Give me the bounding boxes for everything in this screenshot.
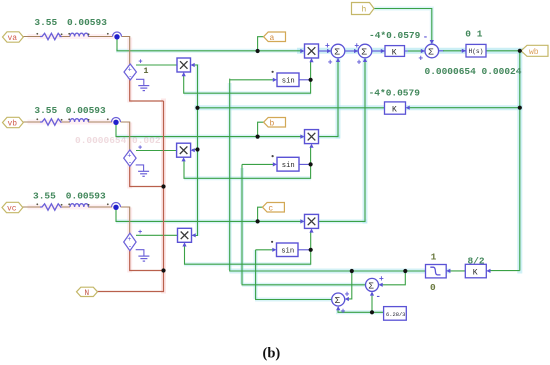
svg-text:+: +	[357, 59, 362, 68]
tag c	[263, 203, 285, 214]
gain K1 -4*0.0579	[381, 46, 405, 58]
svg-text:8/2: 8/2	[468, 255, 485, 266]
wire: theta-b feed to sin-b	[242, 163, 275, 165]
wire: X-b' out to diamond b	[136, 150, 177, 152]
wire: phase c power segments	[23, 207, 130, 233]
svg-text:Σ: Σ	[368, 282, 374, 292]
svg-text:+: +	[354, 42, 359, 51]
svg-text:+: +	[328, 59, 333, 68]
svg-text:h: h	[362, 6, 367, 15]
svg-text:0 1: 0 1	[465, 28, 482, 39]
ground a	[138, 86, 149, 91]
svg-text:Σ: Σ	[428, 47, 434, 58]
sin block b	[272, 155, 300, 171]
svg-text:Σ: Σ	[335, 296, 341, 306]
svg-text:-: -	[376, 292, 381, 302]
wire: phase b power segments	[23, 122, 130, 150]
multiplier X3 (ic x sin c)	[300, 214, 318, 232]
svg-text:3.55: 3.55	[34, 17, 57, 28]
svg-text:vc: vc	[7, 205, 17, 214]
svg-text:+: +	[325, 42, 330, 51]
summer S1	[325, 42, 345, 68]
svg-text:-: -	[128, 73, 132, 81]
wire: to X-b' right pin	[192, 149, 197, 151]
svg-text:3.55: 3.55	[34, 105, 57, 116]
svg-text:+: +	[379, 275, 384, 284]
tag vc	[2, 202, 23, 213]
tag a	[264, 32, 286, 43]
svg-text:+: +	[345, 290, 350, 299]
controlled source diamond b	[124, 145, 144, 172]
wire: K1 to S3	[405, 50, 426, 52]
wire: b-tag stub	[258, 122, 264, 136]
inductor Lc 0.00593	[70, 204, 88, 207]
constant 6.28/3	[384, 307, 407, 321]
svg-text:0.00593: 0.00593	[66, 105, 106, 116]
resistor Rb 3.55	[40, 119, 61, 125]
wire: sin-b out up to X2 and down to X-b'	[299, 163, 311, 165]
wire: a-tag stub	[258, 37, 264, 51]
summer Sb2 (theta + 2pi/3)	[332, 290, 350, 316]
controlled source diamond a	[124, 59, 144, 86]
tag b	[264, 118, 286, 129]
multiplier X2 (ib x sin b)	[300, 130, 318, 148]
svg-text:sin: sin	[282, 78, 295, 86]
current sensor a	[113, 32, 122, 36]
ground c	[138, 256, 149, 261]
wire: theta-a feed to sin-a	[230, 79, 275, 81]
pin dots rows	[36, 33, 108, 206]
multiplier X1 (ia x sin a)	[300, 44, 318, 62]
wire: S2 to K1	[372, 50, 385, 52]
svg-text:-: -	[128, 160, 132, 168]
junction node dots	[161, 49, 522, 315]
svg-text:+: +	[418, 54, 423, 63]
sin block c	[271, 241, 298, 257]
wire: S3 to H(s)	[439, 50, 466, 52]
svg-text:Σ: Σ	[334, 47, 340, 58]
wire: Sb2 out to theta-c vertical	[256, 250, 332, 300]
gain K3 8/2	[465, 264, 490, 278]
wire: K.wb vertical to X' right pins	[192, 65, 198, 236]
svg-text:1: 1	[143, 66, 148, 76]
svg-text:0.00593: 0.00593	[67, 17, 107, 28]
svg-text:-: -	[423, 33, 428, 43]
wire: theta to Sb2 right input	[347, 271, 352, 299]
svg-text:a: a	[270, 34, 275, 43]
svg-text:+: +	[341, 308, 346, 317]
svg-text:b: b	[270, 119, 275, 128]
current sensor b	[112, 118, 121, 123]
wire: X2 out up to S1 bottom	[319, 60, 339, 137]
wire: X-c' out to diamond c	[136, 234, 178, 236]
multiplier X-a' (emf a)	[177, 58, 195, 76]
multiplier X-b' (emf b)	[177, 143, 195, 161]
sawtooth block	[426, 265, 451, 278]
wire: ia sensor drop to X1	[117, 37, 301, 51]
wire: theta to Sb1 right input	[381, 271, 406, 285]
inductor Lb 0.00593	[70, 119, 88, 122]
svg-text:Σ: Σ	[361, 47, 367, 58]
wire: wb vertical down	[519, 51, 521, 271]
svg-text:(b): (b)	[263, 346, 281, 362]
summer S3	[418, 33, 438, 64]
wire: neutral vertical and N tag lead	[98, 101, 164, 292]
inductor La 0.00593	[70, 33, 88, 36]
resistor Rc 3.55	[40, 204, 61, 210]
tag h (load input)	[352, 3, 375, 15]
wire: ib sensor drop to X2	[116, 122, 301, 137]
wire: K2 output distribution	[198, 107, 385, 109]
gain K2 -4*0.0579 (feedback)	[385, 102, 410, 115]
summer S2	[354, 42, 372, 68]
multiplier X-c' (emf c)	[178, 228, 196, 246]
wire: X3 out up to S2 bottom	[319, 60, 366, 221]
wire: wb to K 8/2 input	[489, 270, 520, 272]
summer Sb1 (theta - 2pi/3)	[366, 275, 385, 302]
svg-text:-4*0.0579: -4*0.0579	[369, 30, 421, 41]
wire: sin-a out up to X1 and down to X-a'	[299, 79, 311, 81]
wire: branch to K2 input	[408, 107, 520, 109]
resistor Ra 3.55	[40, 33, 61, 39]
sin block a	[272, 71, 300, 87]
svg-text:+: +	[138, 229, 142, 237]
wire: c-tag stub	[258, 207, 263, 221]
haze backgrounds	[30, 9, 520, 313]
svg-text:K: K	[392, 105, 397, 114]
svg-text:0.0000654 0.002: 0.0000654 0.002	[75, 135, 161, 146]
svg-text:0.0000654 0.00024: 0.0000654 0.00024	[425, 66, 522, 77]
wire: neutral net phase a drop	[130, 80, 164, 101]
tag vb	[3, 117, 24, 128]
transfer function H(s)	[462, 44, 486, 57]
wire: phase a power segments	[23, 37, 129, 65]
svg-text:H(s): H(s)	[469, 48, 484, 55]
svg-text:6.28/3: 6.28/3	[386, 312, 405, 318]
wire: H(s) to wb node and tag	[486, 50, 521, 52]
svg-text:0: 0	[430, 282, 436, 293]
wire: ic sensor drop to X3	[116, 207, 301, 221]
current sensor c	[112, 203, 121, 208]
svg-text:-4*0.0579: -4*0.0579	[369, 87, 421, 98]
svg-text:0.00593: 0.00593	[66, 191, 106, 202]
wire: K 8/2 out to sawtooth input	[449, 270, 465, 272]
svg-text:-: -	[128, 244, 132, 252]
wire: theta main line from sawtooth out to sin-a column	[230, 79, 426, 271]
wire: X-a' out to diamond a	[136, 64, 177, 66]
controlled source diamond c	[124, 229, 144, 256]
ground b	[138, 171, 149, 176]
svg-text:K: K	[392, 49, 397, 58]
wire: sin-c out up to X3 and down to X-c'	[297, 249, 311, 251]
wire: X1 out to S1	[319, 50, 332, 52]
wire: h tag to S3 top	[374, 9, 432, 44]
svg-text:sin: sin	[281, 248, 294, 256]
svg-text:+: +	[138, 59, 142, 67]
wire: 6.28/3 net to Sb2 bottom and Sb1 bottom	[338, 294, 384, 313]
svg-text:K: K	[473, 269, 478, 278]
svg-text:1: 1	[431, 251, 437, 262]
tag N (neutral)	[77, 287, 98, 298]
svg-text:c: c	[268, 204, 273, 213]
tag va	[3, 32, 24, 43]
tag wb (output)	[521, 45, 548, 57]
svg-text:N: N	[84, 289, 89, 298]
svg-text:va: va	[8, 34, 18, 43]
svg-text:3.55: 3.55	[33, 191, 56, 202]
wire: neutral net phase b drop	[130, 166, 164, 186]
wire: Sb1 out to theta-b vertical	[242, 164, 366, 284]
wire: theta-c feed to sin-c	[256, 249, 275, 251]
wire: neutral net phase c drop	[130, 251, 164, 271]
svg-text:sin: sin	[282, 162, 295, 170]
svg-text:wb: wb	[529, 48, 539, 57]
svg-text:vb: vb	[8, 120, 18, 129]
wire: S1 to S2	[345, 50, 358, 52]
